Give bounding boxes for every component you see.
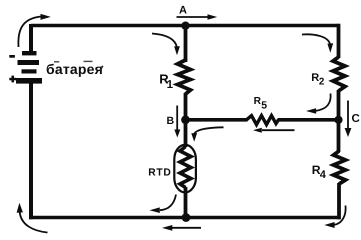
node B dot	[181, 115, 190, 124]
svg-text:батарея: батарея	[46, 61, 103, 77]
node A dot	[181, 22, 189, 30]
wire right middle (R2 to C to R4)	[337, 90, 341, 152]
svg-text:5: 5	[261, 101, 267, 112]
arrow below R2 toward C (curving left)	[306, 94, 331, 114]
node C dot	[334, 116, 342, 124]
RTD oval	[174, 145, 196, 193]
svg-text:1: 1	[167, 79, 174, 91]
arrow from bridge into RTD at B (curving down)	[191, 127, 223, 142]
RTD resistor zigzag	[180, 147, 191, 188]
arrow below node B label (pointing down)	[174, 106, 180, 138]
resistor R5	[247, 116, 279, 125]
R4 label	[312, 163, 327, 181]
wire middle branch A to R1	[184, 26, 188, 63]
R1 label	[159, 72, 173, 91]
scan overline marks above battery label	[54, 61, 59, 62]
arrow under bottom wire (pointing left)	[162, 225, 201, 231]
arrow right of node A (pointing right)	[177, 14, 218, 20]
wire right top (corner to R2)	[337, 24, 341, 58]
battery minus label	[9, 55, 15, 58]
arrow bottom-left corner (curving up)	[17, 203, 48, 233]
wire right bottom (R4 to bottom-right corner)	[337, 183, 341, 219]
arrow below C (pointing down)	[345, 101, 352, 138]
battery BT1	[16, 51, 42, 84]
svg-text:A: A	[179, 4, 187, 16]
arrow top-left (current up from battery, curving right)	[18, 14, 50, 47]
wire B to RTD	[184, 119, 188, 147]
battery plus label	[9, 76, 16, 83]
R2 label	[311, 72, 325, 88]
resistor R1	[178, 60, 191, 94]
arrow RTD bottom toward bottom wire (curving left)	[150, 195, 177, 214]
apostrophe tick after battery label	[100, 66, 103, 70]
resistor R2	[333, 57, 345, 91]
wire bridge B to C	[186, 118, 248, 122]
wire RTD to bottom	[184, 187, 188, 218]
arrow top-right into R2 (curving down)	[302, 34, 333, 52]
wire middle branch R1 to B	[184, 93, 188, 122]
arrow under R5 (pointing left)	[253, 128, 295, 133]
wire left (battery bottom to bottom-left corner)	[29, 83, 33, 219]
wire bottom	[29, 216, 340, 220]
wire top (battery top to right corner)	[31, 24, 337, 28]
arrow below A into R1 branch (curving down)	[152, 34, 180, 56]
bottom junction dot	[182, 213, 191, 222]
svg-text:2: 2	[319, 77, 325, 88]
svg-text:4: 4	[320, 169, 327, 181]
arrow bottom-right corner (curving left below wire)	[324, 206, 345, 229]
resistor R4	[334, 151, 346, 184]
svg-text:RTD: RTD	[148, 167, 171, 178]
wire left top (battery to top wire)	[29, 24, 33, 52]
R5 label	[254, 96, 268, 112]
svg-text:C: C	[352, 113, 360, 125]
svg-text:B: B	[167, 115, 175, 127]
